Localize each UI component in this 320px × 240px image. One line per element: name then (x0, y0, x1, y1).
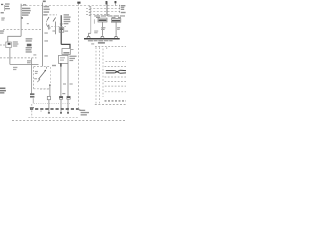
blob top of x107 (106, 1, 108, 4)
ground name bold underline (98, 42, 105, 43)
connector C2 box (59, 96, 62, 99)
dashed bus row4 (86, 14, 110, 16)
connector arrow on x21 wire (21, 17, 23, 18)
label small near x21 (27, 23, 29, 24)
wire from SW3 (55, 22, 57, 35)
wire thick elbow to CB (61, 44, 70, 48)
wire vertical x90.8 (90, 6, 92, 33)
dashed box master switch bottom edge (34, 88, 51, 90)
label text block bottom-left (0, 88, 6, 94)
switch SW4 feed tick (45, 67, 47, 69)
wire vertical x31 (30, 58, 32, 94)
terminal blob C2 (60, 112, 62, 114)
arrow blob top of x78.4 (77, 2, 80, 4)
label above x21 (23, 4, 26, 6)
wire vertical x21 (20, 4, 22, 37)
wire elbow to switch (8, 36, 21, 42)
switch SW2 contact V (47, 25, 49, 27)
wire inner x49.9 (49, 84, 51, 96)
wire label right pin (70, 83, 73, 84)
harness bold dashed row y100.9 (105, 100, 127, 102)
wire horizontal y64 (10, 63, 39, 65)
connector C3 box (67, 96, 70, 99)
harness dashed row y104.4 (95, 103, 126, 105)
dashed box master switch left edge (33, 67, 35, 89)
bold dashed boundary row y109 (30, 108, 80, 110)
bulb E3 (115, 36, 118, 37)
stub below C1 (48, 110, 50, 112)
terminal blob C3 (67, 112, 69, 114)
fuse F2 dark band (112, 20, 120, 22)
tick on x61 wire (60, 23, 63, 25)
circuit breaker box (62, 49, 70, 55)
dashed vline x31.8 bottom (31, 104, 33, 118)
motor box M (59, 55, 69, 63)
junction dot inner wire (49, 85, 51, 87)
bracket wire to bulb E1 (89, 33, 91, 36)
label text left mid (0, 30, 4, 33)
terminal blob C1 (48, 112, 50, 114)
wire from SW1 down (9, 48, 11, 65)
stub below C2 (60, 110, 62, 112)
dashed boundary row y29 (3, 28, 42, 30)
dashed wire vertical x78.4 (77, 4, 79, 110)
dashed row y117.6 (28, 117, 78, 119)
ground G100 (1, 12, 4, 13)
label text left small (1, 18, 5, 21)
wire vertical x42.6 (42, 3, 44, 67)
label text block right of cluster (64, 14, 71, 24)
bulb E2 (101, 36, 104, 37)
pin tick row3 (119, 11, 121, 13)
wire from motor right pin (67, 64, 69, 97)
label right of box (65, 31, 69, 32)
harness dashed row y46.5 (95, 46, 126, 48)
dashed wire into SW1 (0, 44, 6, 46)
pin tick row2 (119, 8, 121, 10)
switch SW1 box (6, 42, 12, 48)
pin tick row1 (119, 5, 121, 7)
label text mid-left (13, 67, 17, 70)
motor box inner marks (60, 57, 65, 61)
harness dashed row y81.6 (105, 81, 127, 83)
fuse header text row (94, 15, 125, 18)
stub x115.4 (114, 3, 116, 5)
wire from SW2 (48, 25, 50, 30)
label near motor top (52, 65, 56, 66)
small label below bus (91, 43, 94, 44)
connector C1 box (47, 96, 50, 99)
note text block bottom (80, 110, 89, 116)
wire below F1 (101, 22, 103, 36)
wire label F2 (117, 27, 120, 30)
label text block top-left (5, 3, 10, 9)
wire below C2 (60, 99, 62, 109)
wire thick x61 (60, 15, 62, 44)
wire below C1 (48, 100, 50, 110)
label tiny below block A (33, 54, 36, 55)
switch SW4 base dot (38, 78, 39, 79)
label right of x42.6 mid (44, 32, 47, 33)
dashed bus row1 top (22, 5, 120, 7)
label rows right of x42.6 (44, 6, 50, 16)
blob top of x115.4 (115, 1, 117, 3)
switch SW3 lever (53, 18, 56, 22)
dashed box master switch top edge (34, 66, 51, 68)
tick on SW2 wire (48, 27, 51, 29)
wire stub left (4, 5, 6, 11)
harness dashed col x96 (95, 47, 97, 104)
switch SW1 contact bold (8, 43, 11, 45)
harness dashed col x99.5 (99, 47, 101, 104)
connector box on x61 (59, 28, 64, 33)
bulb E1 (87, 36, 90, 37)
dashed box master switch right edge (50, 67, 52, 83)
fuse F1 dark band (99, 19, 107, 21)
ground bus bar (84, 38, 120, 40)
junction dot x61 (60, 25, 62, 27)
dashed bus row2 (86, 7, 120, 9)
node S1 top-left tick marks (1, 4, 3, 5)
pin label blobs on x90.8 (89, 6, 91, 16)
stub tick x41 (40, 110, 42, 112)
wire below C3 (67, 99, 69, 109)
twisted pair cable (106, 70, 126, 73)
label right of x42.6 mid2 (44, 40, 48, 41)
circuit breaker inner text (63, 52, 69, 54)
dashed bus row3 (86, 11, 120, 13)
wire from motor left pin (60, 64, 62, 97)
wire vertical x107 (106, 2, 108, 16)
bold label below master switch (30, 93, 34, 97)
label left of box (52, 30, 55, 31)
dashed row bottom y120.6 (12, 120, 126, 122)
note tick (79, 109, 80, 110)
label text block x22 (22, 8, 31, 16)
connector C2 dark band (59, 96, 62, 98)
stub below C3 (67, 110, 69, 112)
wire labels right edge (121, 5, 126, 13)
wire stub x94.3 (93, 19, 95, 23)
harness dashed row y66.5 (105, 66, 127, 68)
bus label text row (88, 40, 113, 41)
splice cross bottom-left (30, 107, 34, 109)
wire label near C2 top (62, 93, 65, 94)
harness dashed col x103 (102, 49, 104, 98)
label text right of SW1 (13, 41, 19, 46)
wire label F1 (101, 27, 105, 30)
dashed boundary row y26 (48, 25, 66, 27)
switch SW4 lever (39, 71, 45, 79)
harness dashed row y77 (105, 76, 127, 78)
switch SW5 lever (37, 79, 40, 82)
switch SW4 upper contact (45, 70, 47, 72)
label rows right of motor (69, 56, 76, 62)
label right of CB (71, 49, 74, 50)
dotted row y103 (34, 102, 70, 104)
wire label left pin (63, 83, 66, 84)
fuse F2 box (111, 19, 120, 23)
wire stub x33 (32, 98, 34, 103)
harness dashed row y91.8 (105, 91, 126, 93)
labels inside master switch (34, 71, 38, 79)
switch SW2 dashes (46, 21, 48, 25)
switch SW2 actuator dashed (43, 14, 57, 16)
switch SW2 lever (47, 17, 49, 21)
dashed row into inner wire (40, 88, 50, 90)
wire label x31 (27, 60, 32, 63)
label below x94.3 (94, 31, 98, 34)
harness dashed col x106.8 (106, 47, 108, 50)
dashed boundary row y58 (0, 57, 37, 59)
label right of x42.6 low (44, 55, 47, 56)
harness dashed row y86.1 (105, 85, 126, 87)
component name text block A (26, 38, 33, 52)
fuse F1 box (98, 18, 107, 22)
bold top of left pin wire (60, 63, 62, 66)
label above x42.6 (43, 1, 46, 3)
harness dashed row y61.6 (106, 61, 127, 63)
connector C3 dark band (67, 96, 70, 98)
wire below F2 (115, 22, 117, 36)
connector box dark band (60, 28, 63, 30)
